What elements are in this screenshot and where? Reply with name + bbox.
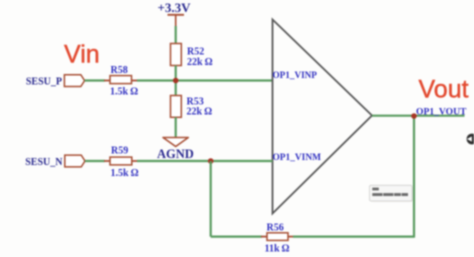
svg-text:OP1_VINP: OP1_VINP: [273, 70, 318, 80]
wire feedback bottom left: [211, 236, 262, 238]
wire R52 to R53 through node: [175, 66, 177, 96]
wire feedback down: [210, 161, 212, 237]
wire feedback up: [413, 116, 415, 238]
wire SESU_P to R58: [85, 79, 105, 81]
wire R59 to op-amp VINM: [137, 160, 273, 162]
svg-text:SESU_P: SESU_P: [26, 76, 62, 87]
svg-text:11k Ω: 11k Ω: [265, 244, 290, 255]
ground AGND: [157, 138, 194, 161]
pin R56 left: [261, 236, 267, 238]
resistor R58: [110, 65, 138, 98]
svg-text:R59: R59: [111, 146, 128, 157]
wire SESU_N to R59: [85, 160, 105, 162]
junction node VOUT: [411, 113, 417, 119]
svg-text:Vin: Vin: [64, 41, 100, 69]
svg-text:OP1_VINM: OP1_VINM: [273, 153, 322, 163]
junction node VINM feedback: [208, 158, 214, 164]
cursor icon: [467, 134, 474, 145]
svg-text:Vout: Vout: [419, 76, 469, 104]
svg-text:22k Ω: 22k Ω: [187, 57, 213, 68]
wire feedback bottom right: [293, 236, 414, 238]
pin R56 right: [288, 236, 294, 238]
pin R58 left: [104, 80, 110, 82]
resistor R53: [171, 96, 213, 118]
wire R58 to op-amp VINP: [137, 79, 273, 81]
pin R59 left: [104, 160, 110, 162]
svg-text:SESU_N: SESU_N: [25, 157, 63, 168]
resistor R59: [110, 146, 139, 180]
tooltip box: [370, 185, 414, 202]
wire power to R52: [175, 26, 177, 44]
resistor R56: [265, 223, 290, 255]
pin R58 right: [132, 80, 139, 82]
svg-text:R56: R56: [267, 223, 284, 234]
power +3.3V: [158, 0, 192, 26]
svg-text:1.5k Ω: 1.5k Ω: [110, 87, 138, 98]
resistor R52: [171, 44, 213, 68]
wire R53 to AGND: [175, 117, 177, 137]
svg-text:+3.3V: +3.3V: [158, 0, 192, 15]
svg-text:AGND: AGND: [157, 147, 194, 161]
svg-text:OP1_VOUT: OP1_VOUT: [416, 107, 467, 118]
svg-text:R58: R58: [111, 65, 128, 76]
op-amp OP1: [273, 20, 373, 214]
port SESU_P: [26, 75, 85, 88]
port SESU_N: [25, 155, 85, 168]
junction node VINP divider: [173, 78, 179, 84]
wire op-amp output: [372, 115, 465, 117]
svg-text:22k Ω: 22k Ω: [187, 107, 213, 118]
pin R59 right: [132, 160, 138, 162]
svg-text:1.5k Ω: 1.5k Ω: [111, 168, 139, 179]
